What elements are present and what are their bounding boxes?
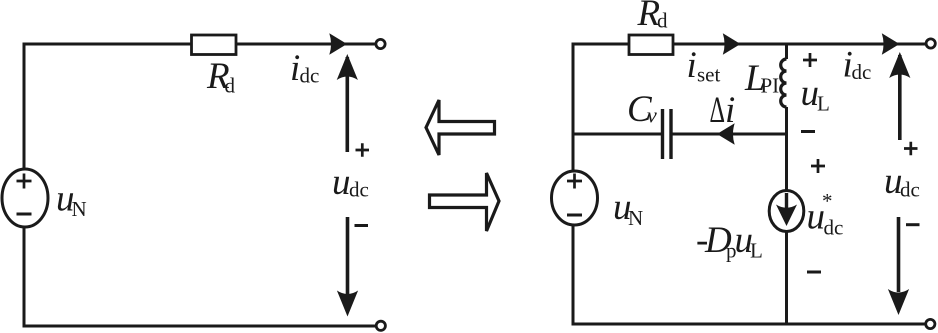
svg-text:PI: PI <box>761 74 780 98</box>
svg-text:L: L <box>817 92 830 116</box>
wire left-circuit left vertical lower + bottom <box>24 226 376 326</box>
label i_dc left <box>290 48 319 89</box>
wire right-circuit left vertical lower + bottom <box>573 225 926 324</box>
plus above U1 <box>811 159 825 173</box>
resistor R1 (Rd left) <box>192 35 237 55</box>
minus of u_L <box>801 130 815 133</box>
resistor R2 (Rd right) <box>629 35 673 55</box>
plus of u_dc left <box>356 143 370 157</box>
label delta-i <box>710 90 736 131</box>
svg-text:dc: dc <box>852 60 872 84</box>
svg-text:i: i <box>725 90 735 131</box>
label u_dc left <box>332 162 369 203</box>
hollow arrow pointing left (middle) <box>426 100 495 155</box>
minus of V2 <box>567 214 582 217</box>
label Cv <box>627 89 657 130</box>
label i_dc right <box>843 45 872 86</box>
wire right-circuit middle (capacitor branch) <box>573 133 661 136</box>
label u_N left <box>56 179 87 222</box>
svg-text:set: set <box>697 63 720 87</box>
plus of V1 <box>17 174 32 189</box>
svg-text:dc: dc <box>300 64 320 88</box>
svg-text:v: v <box>647 103 657 128</box>
voltage source V2 u_N right <box>552 171 598 225</box>
wire controlled source to bottom <box>785 231 788 325</box>
wire inductor branch upper stub <box>785 44 788 59</box>
hollow arrow pointing right (middle) <box>430 173 500 231</box>
inductor L1 (L_PI) <box>781 59 787 107</box>
voltage arrow u_dc down (right circuit) <box>888 217 909 315</box>
svg-text:d: d <box>657 9 668 33</box>
label u_dc right <box>884 161 920 202</box>
plus of u_L <box>803 53 817 67</box>
node terminal bottom-left circuit <box>376 321 385 330</box>
node terminal top-left circuit <box>376 39 385 48</box>
label L_PI <box>744 58 779 99</box>
label u_L <box>801 73 830 116</box>
controlled source U1 <box>769 191 804 232</box>
voltage arrow u_dc up (right circuit) <box>889 52 910 140</box>
svg-text:*: * <box>822 189 833 213</box>
svg-text:Δ: Δ <box>710 90 726 131</box>
current arrow i_dc left <box>329 33 347 55</box>
svg-text:dc: dc <box>824 216 844 240</box>
plus of u_dc right <box>904 142 918 156</box>
svg-text:u: u <box>332 162 351 203</box>
voltage arrow u_dc down (left circuit) <box>337 217 358 317</box>
label Rd right <box>637 0 669 34</box>
svg-text:d: d <box>225 74 236 98</box>
label -Dp uL <box>696 220 763 263</box>
svg-text:N: N <box>628 206 643 230</box>
voltage arrow u_dc up (left circuit) <box>337 54 358 152</box>
voltage source V1 u_N left <box>2 169 48 227</box>
wire left-circuit top + left vertical upper <box>24 44 376 170</box>
current arrow i_set <box>723 33 741 55</box>
svg-text:dc: dc <box>900 178 920 202</box>
label i_set <box>687 45 721 87</box>
wire right-circuit top + left vertical upper <box>573 44 926 171</box>
minus of u_dc right <box>906 223 920 226</box>
minus of u_dc left <box>355 224 369 227</box>
svg-text:N: N <box>72 197 87 221</box>
svg-text:i: i <box>687 45 697 86</box>
wire inductor to controlled source <box>785 107 788 193</box>
node terminal bottom-right circuit <box>926 319 935 328</box>
minus below U1 <box>807 271 821 274</box>
svg-text:dc: dc <box>349 178 369 202</box>
label Rd left <box>206 56 236 98</box>
minus of V1 <box>17 213 32 216</box>
node terminal top-right circuit <box>926 39 935 48</box>
wire capacitor to inductor node <box>673 133 787 136</box>
label u*_dc <box>807 189 844 240</box>
capacitor C1 (Cv) plates <box>663 109 672 159</box>
label u_N right <box>613 187 643 230</box>
plus of V2 <box>567 174 582 189</box>
current arrow delta-i <box>717 123 735 145</box>
current arrow i_dc right <box>882 33 900 55</box>
svg-text:L: L <box>750 239 763 263</box>
arrow inside U1 <box>776 193 797 226</box>
